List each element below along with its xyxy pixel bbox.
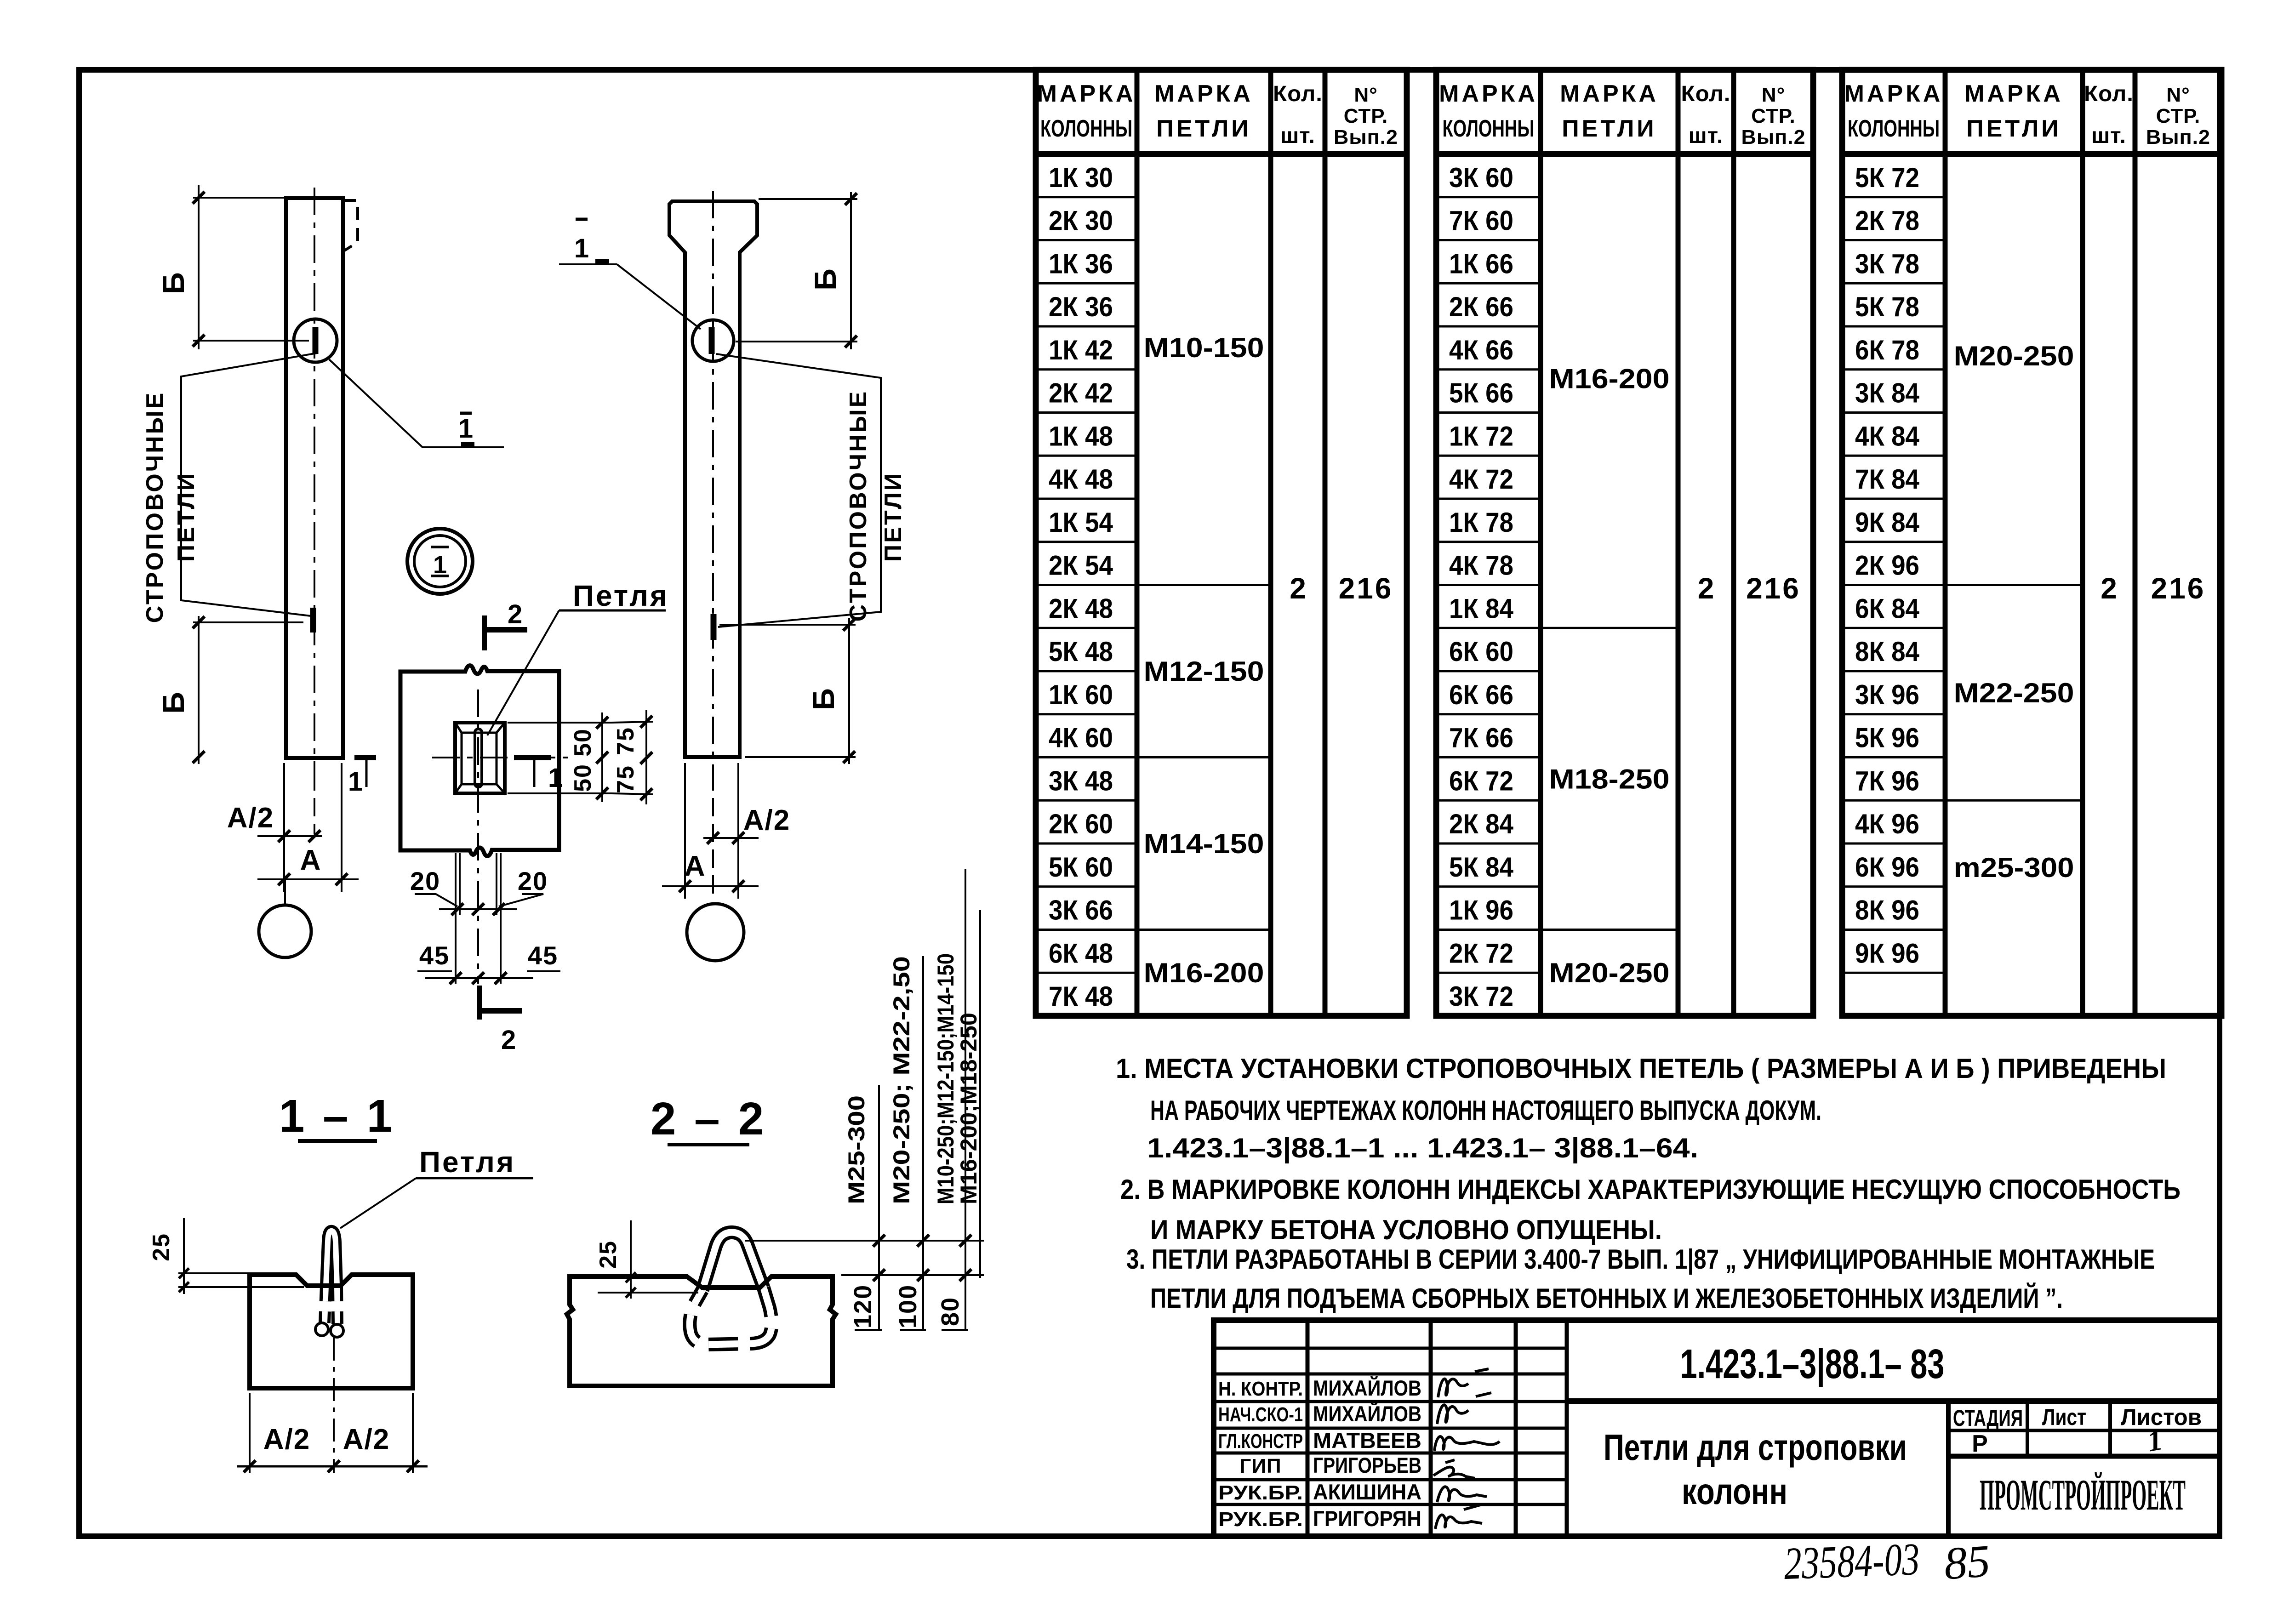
table 2 column mark cells [1449,162,1514,1012]
table 3 loop mark group separators and labels [1945,341,2083,883]
svg-text:1К 66: 1К 66 [1449,248,1513,279]
svg-text:ГРИГОРЯН: ГРИГОРЯН [1313,1506,1421,1531]
leader from section mark to loop circle (column 2) [617,264,701,329]
svg-text:Листов: Листов [2121,1404,2202,1430]
svg-text:4К 78: 4К 78 [1449,550,1513,581]
leader from circle to section mark 1 (column 1) [329,359,504,447]
section mark 1 at top-left of column 2 [559,219,617,264]
svg-text:ПЕТЛИ: ПЕТЛИ [1562,115,1656,142]
svg-text:4К 72: 4К 72 [1449,464,1513,495]
table 1 column mark cells [1049,162,1113,1012]
svg-text:А/2: А/2 [263,1424,310,1455]
svg-text:8К 84: 8К 84 [1855,636,1920,667]
svg-text:М22-250: М22-250 [1954,678,2074,708]
svg-text:2К 30: 2К 30 [1049,205,1113,236]
svg-text:1К 36: 1К 36 [1049,248,1113,279]
svg-text:СТР.: СТР. [1751,105,1796,127]
recess outer rectangle [455,723,505,793]
section mark 1 right of detail [514,758,563,793]
position circle below column 1 [259,905,311,957]
svg-text:НА РАБОЧИХ ЧЕРТЕЖАХ КОЛОНН НАС: НА РАБОЧИХ ЧЕРТЕЖАХ КОЛОНН НАСТОЯЩЕГО ВЫ… [1150,1095,1821,1126]
centerline below block (section 1-1) [333,1338,335,1473]
svg-text:2К 84: 2К 84 [1449,809,1514,839]
svg-text:6К 48: 6К 48 [1049,938,1113,969]
svg-text:АКИШИНА: АКИШИНА [1313,1480,1421,1504]
dimension 50/50 right of recess [508,712,611,802]
svg-text:3К 78: 3К 78 [1855,248,1919,279]
svg-text:Б: Б [806,687,840,710]
svg-text:2: 2 [501,1025,516,1055]
dimension B upper: extension lines, dim line, ticks, label [156,185,309,349]
svg-text:М20-250; М22-2,50: М20-250; М22-2,50 [889,956,914,1204]
document number box separator [1567,1398,2220,1404]
table 3 row separators [1842,197,1945,973]
surface level line and ticks [841,1269,984,1281]
extension lines for A/2 dims (section 1-1) [250,1393,413,1473]
column 1 centerline [314,188,315,772]
svg-text:Б: Б [808,268,842,290]
svg-text:7К 66: 7К 66 [1449,723,1513,753]
dimension 20 20 below detail [410,866,548,915]
dimension 45 45 below detail [417,941,560,984]
ladder of rotated loop mark labels [879,869,980,1330]
svg-text:2К 72: 2К 72 [1449,938,1513,969]
stage/sheet table [1948,1401,2220,1536]
svg-text:6К 72: 6К 72 [1449,765,1513,796]
svg-text:1 – 1: 1 – 1 [279,1090,395,1142]
svg-text:2К 42: 2К 42 [1049,378,1113,409]
dimension A (column 1) [257,844,359,885]
table 1 quantity and page number [1290,572,1393,605]
recess corner bevel lines [455,723,505,793]
svg-text:2 – 2: 2 – 2 [651,1093,766,1145]
svg-text:3К 72: 3К 72 [1449,981,1513,1012]
svg-text:НАЧ.СКО-1: НАЧ.СКО-1 [1218,1403,1303,1426]
detail circle around top loop [294,319,337,362]
svg-text:2. В МАРКИРОВКЕ КОЛОНН ИНДЕКСЫ: 2. В МАРКИРОВКЕ КОЛОНН ИНДЕКСЫ ХАРАКТЕРИ… [1120,1174,2181,1205]
dimension 25 (section 1-1) [148,1218,304,1294]
dimension A/2 (column 2) [703,804,790,844]
signature table grid [1214,1320,1567,1536]
svg-text:ПЕТЛИ: ПЕТЛИ [880,472,907,562]
svg-text:А/2: А/2 [743,804,790,836]
svg-text:3К 60: 3К 60 [1449,162,1513,193]
svg-text:МИХАЙЛОВ: МИХАЙЛОВ [1313,1376,1421,1400]
svg-text:МАРКА: МАРКА [1439,80,1538,107]
svg-text:МАРКА: МАРКА [1154,80,1253,107]
signature squiggles [1433,1369,1500,1529]
svg-text:ГЛ.КОНСТР: ГЛ.КОНСТР [1218,1430,1303,1453]
svg-text:5К 78: 5К 78 [1855,291,1919,322]
column elevation view 2 (column with widened head) [669,201,757,757]
svg-text:1: 1 [348,767,363,797]
svg-text:Петля: Петля [419,1145,515,1179]
svg-text:А/2: А/2 [227,802,274,834]
svg-text:4К 48: 4К 48 [1049,464,1113,495]
svg-text:N°: N° [2166,84,2190,106]
svg-text:1К 54: 1К 54 [1049,507,1113,538]
svg-text:МАТВЕЕВ: МАТВЕЕВ [1313,1428,1421,1453]
dimension B lower (column 1) [156,616,303,764]
loop wire seen in plan (narrow oval) [475,729,482,787]
column elevation view 1 (left column with corbel) [286,198,343,758]
svg-text:1К 30: 1К 30 [1049,162,1113,193]
svg-text:1К 78: 1К 78 [1449,507,1513,538]
svg-text:100: 100 [894,1284,922,1328]
svg-text:шт.: шт. [1689,124,1724,148]
svg-text:Б: Б [156,691,190,713]
svg-text:МАРКА: МАРКА [1037,80,1136,107]
svg-text:6К 84: 6К 84 [1855,593,1920,624]
table 3 quantity and page number [2101,572,2205,605]
svg-text:3К 96: 3К 96 [1855,679,1919,710]
svg-text:М10-250;М12-150;М14-150: М10-250;М12-150;М14-150 [933,953,959,1204]
svg-text:5К 66: 5К 66 [1449,378,1513,409]
table 2 loop mark group separators and labels [1541,364,1678,989]
column 2 bottom strop loop mark [711,614,717,640]
extension lines below column 2 [685,763,738,901]
svg-text:23584-03: 23584-03 [1783,1533,1920,1589]
handwritten archive number 23584-03 85 [1783,1533,1992,1590]
svg-text:25: 25 [148,1233,175,1261]
loop wire anchor circles (section 1-1) [315,1323,328,1336]
loop hairpin of section 1-1 (double outline wire) [325,1231,337,1324]
table 2 frame [1436,70,1813,1016]
svg-text:ГИП: ГИП [1239,1455,1281,1477]
svg-text:5К 60: 5К 60 [1049,852,1113,883]
svg-text:КОЛОННЫ: КОЛОННЫ [1848,115,1940,142]
svg-text:М10-150: М10-150 [1144,332,1264,363]
svg-text:М12-150: М12-150 [1144,656,1264,687]
central detail block outline with break lines [400,666,559,856]
svg-text:m25-300: m25-300 [1954,852,2074,883]
svg-text:45: 45 [528,941,558,970]
label Петля with leader (section 1-1) [340,1145,533,1228]
svg-text:1К 84: 1К 84 [1449,593,1514,624]
section mark 2 below detail [479,986,522,1055]
svg-text:5К 72: 5К 72 [1855,162,1919,193]
svg-text:М16-200: М16-200 [1549,364,1670,394]
svg-text:2К 60: 2К 60 [1049,809,1113,839]
svg-text:25: 25 [595,1240,622,1269]
svg-text:шт.: шт. [1280,124,1315,148]
svg-text:7К 60: 7К 60 [1449,205,1513,236]
svg-text:5К 96: 5К 96 [1855,723,1919,753]
dimension A/2 A/2 (section 1-1) [237,1424,428,1472]
svg-text:М25-300: М25-300 [844,1095,869,1204]
table 2 row separators [1436,197,1541,973]
svg-text:75: 75 [612,765,639,793]
svg-text:2К 48: 2К 48 [1049,593,1113,624]
svg-text:МИХАЙЛОВ: МИХАЙЛОВ [1313,1402,1421,1426]
svg-text:7К 96: 7К 96 [1855,765,1919,796]
callout bracket for strop loops text (column 1) [181,353,317,616]
svg-text:М18-250: М18-250 [1549,764,1670,794]
svg-text:М14-150: М14-150 [1144,828,1264,859]
signature table texts [1218,1376,1421,1531]
svg-text:50: 50 [570,764,596,792]
dimension 75/75 right of recess [611,710,653,804]
svg-text:2К 96: 2К 96 [1855,550,1919,581]
notes paragraph [1116,1053,2181,1314]
svg-text:Вып.2: Вып.2 [1334,126,1398,148]
svg-text:6К 78: 6К 78 [1855,335,1919,365]
svg-text:Лист: Лист [2042,1404,2086,1430]
svg-text:N°: N° [1354,84,1377,106]
svg-text:Кол.: Кол. [1273,82,1323,106]
table 3 header text [1844,80,2210,148]
svg-text:М20-250: М20-250 [1954,341,2074,371]
svg-text:Вып.2: Вып.2 [1741,126,1806,148]
svg-text:80: 80 [936,1297,964,1326]
svg-text:1.423.1–3|88.1– 83: 1.423.1–3|88.1– 83 [1680,1341,1945,1388]
svg-text:ПЕТЛИ: ПЕТЛИ [1966,115,2061,142]
recess inner rectangle (bevel) [462,733,497,784]
table 1 header text [1037,80,1398,148]
svg-text:50: 50 [570,728,596,757]
svg-text:6К 96: 6К 96 [1855,852,1919,883]
svg-text:216: 216 [2151,572,2206,605]
column 1 top strop loop mark [313,327,319,354]
svg-text:СТАДИЯ: СТАДИЯ [1953,1405,2023,1431]
svg-text:216: 216 [1746,572,1801,605]
block of section 1-1 with top notch [250,1275,413,1388]
svg-text:2: 2 [508,599,522,629]
table 1 frame [1036,70,1407,1016]
svg-text:1К 48: 1К 48 [1049,421,1113,451]
svg-text:5К 48: 5К 48 [1049,636,1113,667]
svg-text:20: 20 [518,866,548,895]
section mark tick and label 1 near column 1 [458,413,474,445]
svg-text:2К 36: 2К 36 [1049,291,1113,322]
dimension A/2 (column 1) [227,802,322,842]
svg-text:1К 96: 1К 96 [1449,895,1513,926]
svg-text:ГРИГОРЬЕВ: ГРИГОРЬЕВ [1313,1453,1421,1477]
double circle view indicator with section label [407,529,473,594]
extension lines below column 1 [284,763,342,892]
column 1 bottom strop loop mark [310,608,316,633]
svg-text:1. МЕСТА УСТАНОВКИ СТРОПОВОЧНЫ: 1. МЕСТА УСТАНОВКИ СТРОПОВОЧНЫХ ПЕТЕЛЬ (… [1116,1053,2166,1084]
section mark 1 left of detail [348,758,376,797]
svg-text:Петли для строповки: Петли для строповки [1604,1427,1907,1468]
labels 120 100 80 (rotated) [849,1284,968,1330]
svg-text:ПЕТЛИ: ПЕТЛИ [173,472,200,562]
svg-text:4К 60: 4К 60 [1049,723,1113,753]
block of section 2-2 with top notch and edge breaks [567,1276,836,1386]
svg-text:колонн: колонн [1682,1471,1787,1512]
svg-text:6К 60: 6К 60 [1449,636,1513,667]
column 1 corbel (dashed hidden console) [343,200,358,251]
svg-text:2К 66: 2К 66 [1449,291,1513,322]
svg-text:2: 2 [1698,572,1714,605]
svg-text:Вып.2: Вып.2 [2146,126,2210,148]
svg-text:5К 84: 5К 84 [1449,852,1514,883]
svg-text:4К 66: 4К 66 [1449,335,1513,365]
svg-text:4К 84: 4К 84 [1855,421,1920,451]
svg-text:КОЛОННЫ: КОЛОННЫ [1443,115,1535,142]
svg-text:1К 72: 1К 72 [1449,421,1513,451]
svg-text:3. ПЕТЛИ РАЗРАБОТАНЫ В СЕРИИ 3: 3. ПЕТЛИ РАЗРАБОТАНЫ В СЕРИИ 3.400-7 ВЫП… [1126,1244,2155,1275]
svg-text:1: 1 [574,234,589,263]
svg-text:шт.: шт. [2091,124,2126,148]
loop hairpin of section 2-2 above surface (double outline) [702,1232,764,1290]
svg-text:ПРОМСТРОЙПРОЕКТ: ПРОМСТРОЙПРОЕКТ [1980,1470,2186,1519]
svg-text:N°: N° [1762,84,1785,106]
extension lines below detail for 20/45 dims [456,853,501,984]
table 2 header text [1439,80,1805,148]
svg-text:9К 84: 9К 84 [1855,507,1920,538]
dimension 25 (section 2-2) [595,1220,698,1299]
svg-text:216: 216 [1339,572,1393,605]
section 1-1 title [279,1090,395,1142]
loop hairpin of section 2-2 below surface (dashed double outline) [690,1288,771,1345]
svg-text:ПЕТЛИ ДЛЯ ПОДЪЕМА СБОРНЫХ БЕТО: ПЕТЛИ ДЛЯ ПОДЪЕМА СБОРНЫХ БЕТОННЫХ И ЖЕЛ… [1150,1283,2063,1314]
column 2 top strop loop mark [709,327,715,354]
svg-text:Б: Б [156,271,190,294]
svg-text:Кол.: Кол. [2084,82,2134,106]
svg-text:КОЛОННЫ: КОЛОННЫ [1040,115,1132,142]
svg-text:Кол.: Кол. [1681,82,1731,106]
svg-text:РУК.БР.: РУК.БР. [1218,1508,1303,1531]
svg-text:8К 96: 8К 96 [1855,895,1919,926]
svg-text:75: 75 [612,727,639,755]
table 3 column mark cells [1855,162,1920,969]
svg-text:СТРОПОВОЧНЫЕ: СТРОПОВОЧНЫЕ [845,390,872,622]
svg-text:6К 66: 6К 66 [1449,679,1513,710]
svg-text:СТР.: СТР. [1344,105,1388,127]
svg-text:СТР.: СТР. [2156,105,2201,127]
svg-text:Н. КОНТР.: Н. КОНТР. [1218,1378,1303,1400]
position circle below column 2 [687,904,744,961]
svg-text:3К 66: 3К 66 [1049,895,1113,926]
detail circle around top loop (column 2) [692,320,734,361]
svg-text:3К 84: 3К 84 [1855,378,1920,409]
svg-text:А: А [685,850,706,882]
svg-text:1: 1 [548,763,563,793]
svg-text:2: 2 [2101,572,2117,605]
callout bracket for strop loops text (column 2) [716,354,881,627]
svg-text:2К 78: 2К 78 [1855,205,1919,236]
svg-text:1К 60: 1К 60 [1049,679,1113,710]
title block outer frame [1214,1320,2220,1536]
table 1 loop mark group separators and labels [1137,332,1271,988]
svg-text:Петля: Петля [573,579,669,612]
svg-text:МАРКА: МАРКА [1844,80,1943,107]
section 2-2 title [651,1093,766,1145]
table 2 quantity and page number [1698,572,1801,605]
detail horizontal centerline [432,757,575,758]
svg-text:2: 2 [1290,572,1306,605]
svg-text:И МАРКУ БЕТОНА УСЛОВНО ОПУЩЕН: И МАРКУ БЕТОНА УСЛОВНО ОПУЩЕНЫ. [1150,1214,1662,1245]
table 1 row separators [1036,197,1137,973]
svg-text:1.423.1–3|88.1–1 ... 1.423.1–: 1.423.1–3|88.1–1 ... 1.423.1– 3|88.1–64. [1147,1133,1698,1164]
drawing title text [1604,1427,1907,1512]
svg-text:М20-250: М20-250 [1549,957,1670,988]
svg-text:4К 96: 4К 96 [1855,809,1919,839]
loop top level line and ticks [745,1235,984,1247]
svg-text:А/2: А/2 [343,1424,390,1455]
svg-text:7К 48: 7К 48 [1049,981,1113,1012]
svg-text:7К 84: 7К 84 [1855,464,1920,495]
svg-text:Р: Р [1972,1430,1988,1457]
svg-text:МАРКА: МАРКА [1964,80,2063,107]
dimension A (column 2) [662,850,759,892]
svg-text:20: 20 [410,866,440,895]
svg-text:1: 1 [458,414,473,444]
svg-text:МАРКА: МАРКА [1560,80,1659,107]
dimension B lower (column 2) [719,618,856,764]
svg-text:М16-200;М18-250: М16-200;М18-250 [956,1013,982,1204]
svg-text:ПЕТЛИ: ПЕТЛИ [1156,115,1251,142]
dimension B upper (column 2) [736,192,857,349]
svg-text:45: 45 [419,941,450,970]
svg-text:3К 48: 3К 48 [1049,765,1113,796]
table 3 frame [1842,70,2221,1016]
svg-text:85: 85 [1942,1535,1992,1590]
svg-text:9К 96: 9К 96 [1855,938,1919,969]
svg-text:1К 42: 1К 42 [1049,335,1113,365]
label Петля with leader (central detail) [487,579,669,735]
svg-text:120: 120 [849,1284,877,1328]
section mark 2 above detail [485,599,527,650]
svg-text:РУК.БР.: РУК.БР. [1218,1482,1303,1504]
svg-text:А: А [300,844,322,876]
column 2 centerline [712,191,714,772]
svg-text:2К 54: 2К 54 [1049,550,1113,581]
svg-text:СТРОПОВОЧНЫЕ: СТРОПОВОЧНЫЕ [142,391,168,623]
detail vertical centerline [477,689,479,984]
svg-text:М16-200: М16-200 [1144,957,1264,988]
